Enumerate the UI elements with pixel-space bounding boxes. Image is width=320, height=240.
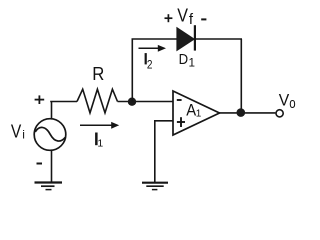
svg-text:R: R [92,63,104,84]
diode D1 [177,25,195,50]
svg-text:2: 2 [147,57,153,71]
wire resistor to op-amp minus input [118,101,174,103]
source V_i [34,119,66,151]
op-amp A1 [173,91,220,135]
svg-text:V: V [279,91,290,110]
terminal Vo [276,110,283,117]
resistor R [77,89,118,113]
wire source to resistor [50,101,77,103]
wire op-amp output [220,112,276,114]
svg-text:i: i [22,127,25,141]
ground (op-amp) [142,183,168,190]
plus sign Vf [165,14,173,22]
label I1 [95,133,98,146]
svg-text:1: 1 [97,138,103,150]
node A (junction after resistor) [128,98,136,106]
plus sign op-amp [177,117,185,127]
plus sign source [35,95,45,104]
svg-text:1: 1 [189,57,196,70]
label I2 [145,53,147,64]
ground (source) [35,183,63,190]
wire source top vertical [51,102,53,119]
minus sign Vf [201,18,206,20]
wire feedback right vertical [240,39,242,113]
arrow I1 [80,122,119,129]
wire feedback top right [195,38,242,40]
svg-text:V: V [11,121,21,141]
svg-text:V: V [177,5,188,25]
arrow I2 [139,45,167,52]
wire source bottom vertical [51,150,53,182]
svg-text:1: 1 [196,109,202,120]
svg-text:o: o [289,95,295,112]
wire feedback left vertical [131,39,133,102]
wire feedback top left [132,38,178,40]
minus sign op-amp [177,99,182,101]
wire op-amp plus input [155,120,174,182]
svg-text:D: D [179,52,189,68]
minus sign source [37,163,43,165]
node B (output junction) [237,108,246,117]
